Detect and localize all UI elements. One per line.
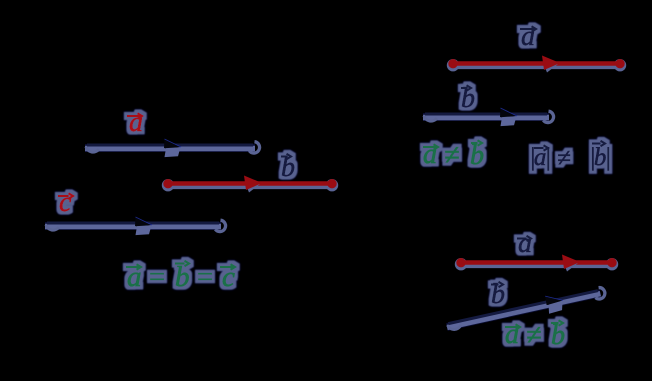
svg-text:≠: ≠ xyxy=(526,320,541,351)
svg-text:a: a xyxy=(505,319,519,350)
svg-text:≠: ≠ xyxy=(557,145,571,172)
svg-text:a: a xyxy=(423,139,437,170)
svg-text:b: b xyxy=(470,140,484,171)
svg-text:a: a xyxy=(518,228,532,259)
svg-text:a: a xyxy=(129,107,143,138)
svg-text:b: b xyxy=(551,320,565,351)
svg-text:≠: ≠ xyxy=(444,140,459,171)
svg-text:|b|: |b| xyxy=(589,144,609,171)
svg-text:c: c xyxy=(59,187,72,218)
svg-text:=: = xyxy=(195,261,215,293)
svg-text:b: b xyxy=(175,261,190,293)
svg-text:=: = xyxy=(147,261,167,293)
svg-text:a: a xyxy=(521,21,535,52)
